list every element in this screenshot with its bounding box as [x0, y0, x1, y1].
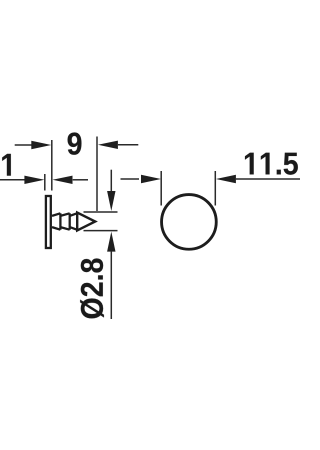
dimension 11.5 right arrowhead: [216, 175, 236, 183]
extension line circle right: [214, 171, 216, 206]
extension line right of 9 (stud tip): [96, 137, 98, 212]
extension line stud top (diameter 2.8): [84, 211, 118, 213]
diameter 2.8 down arrow shaft: [110, 170, 112, 193]
extension line stud bottom (diameter 2.8): [84, 230, 118, 232]
extension line circle left: [160, 171, 162, 206]
dimension 9 right arrowhead: [98, 141, 118, 149]
plate side view: [46, 196, 51, 248]
extension line left of 9 (plate right face): [51, 140, 53, 191]
dimension text 11.5: [245, 153, 298, 175]
dimension 11.5 left arrow tail: [121, 178, 140, 180]
stud rib 3 bottom edge: [70, 227, 77, 230]
stud rib 1 top edge: [52, 213, 60, 216]
stud rib 3 top edge: [70, 213, 77, 216]
dimension 1 left arrow tail: [0, 179, 25, 181]
stud cone tip: [77, 213, 95, 231]
dimension 11.5 left arrowhead: [141, 175, 161, 183]
stud rib 2 right edge: [69, 213, 71, 229]
dimension 9 left arrow tail: [15, 144, 32, 146]
dimension 11.5 right arrow tail: [236, 178, 300, 180]
diameter 2.8 up arrowhead: [107, 232, 115, 252]
extension line plate left face: [44, 174, 46, 191]
dimension 9 left arrowhead: [31, 141, 51, 149]
dimension 9 right arrow tail: [118, 144, 138, 146]
stud rib 1 right edge: [59, 213, 61, 229]
circle front view of plate: [162, 195, 217, 250]
diameter 2.8 up arrow shaft: [110, 251, 112, 319]
stud rib 2 top edge: [60, 213, 69, 216]
stud rib 2 bottom edge: [60, 227, 69, 230]
dimension 1 right arrow tail: [73, 179, 88, 181]
dimension text 1: [2, 154, 11, 176]
diameter 2.8 down arrowhead: [107, 191, 115, 211]
dimension 1 right arrowhead: [53, 176, 73, 184]
stud rib 1 bottom edge: [52, 227, 60, 230]
dimension 1 left arrowhead: [24, 176, 44, 184]
dimension text 9: [68, 133, 82, 155]
dimension text diameter 2.8 (rotated): [80, 258, 104, 318]
